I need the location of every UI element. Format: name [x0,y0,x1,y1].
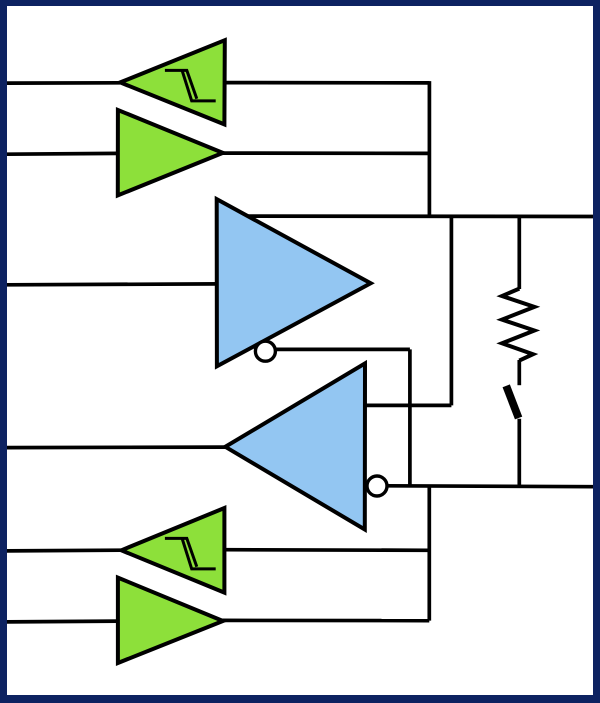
wire: bottom buffer input from left border [7,619,119,624]
bubble on U1 [255,341,275,361]
wire: U1 bubble output horizontal [275,348,410,352]
hysteresis symbol of G3 [165,538,216,569]
wire: top buffer input from left border [7,152,119,157]
hysteresis symbol of G1 [165,70,216,101]
buffer G2 (top buffer, pointing right) [118,110,223,195]
wire: horizontal into receiver U2 right edge [365,404,452,408]
wire: driver U1 input from left border [7,282,219,287]
wire: bottom schmitt input from bottom bus [223,548,430,552]
buffer G1 (top schmitt trigger, pointing left) [120,40,225,124]
buffer G4 (bottom buffer, pointing right) [118,578,223,663]
resistor R1 [502,289,534,361]
receiver U2 (large blue triangle, pointing left) [225,363,365,529]
wire: top schmitt input from vertical bus [223,81,429,85]
wire: resistor bottom to switch [517,360,521,385]
wire: top horizontal bus to right border [247,214,593,218]
wire: top buffer output to vertical bus [221,151,429,155]
wire: top schmitt output to left border [7,81,120,85]
bubble on U2 [367,476,387,496]
buffer G3 (bottom schmitt trigger, pointing left) [121,508,224,593]
wire: vertical from top bus to resistor [517,216,521,289]
wire: U2 bubble output to right border [388,484,594,489]
wire: bottom schmitt output to left border [7,548,121,552]
wire: U2 output tip to left border [7,445,226,449]
wire: bottom vertical bus [427,486,431,621]
wire: switch bottom to bottom bus [517,419,521,487]
switch S1 blade [506,386,518,418]
wire: top vertical bus [428,81,432,216]
wire: bottom buffer output to bottom bus [220,619,429,623]
driver U1 (large blue triangle, pointing right) [217,199,371,366]
wire: vertical from top bus down to receiver input [450,216,454,405]
wire: vertical from U1 bubble wire down to U2 bubble wire [408,349,412,486]
